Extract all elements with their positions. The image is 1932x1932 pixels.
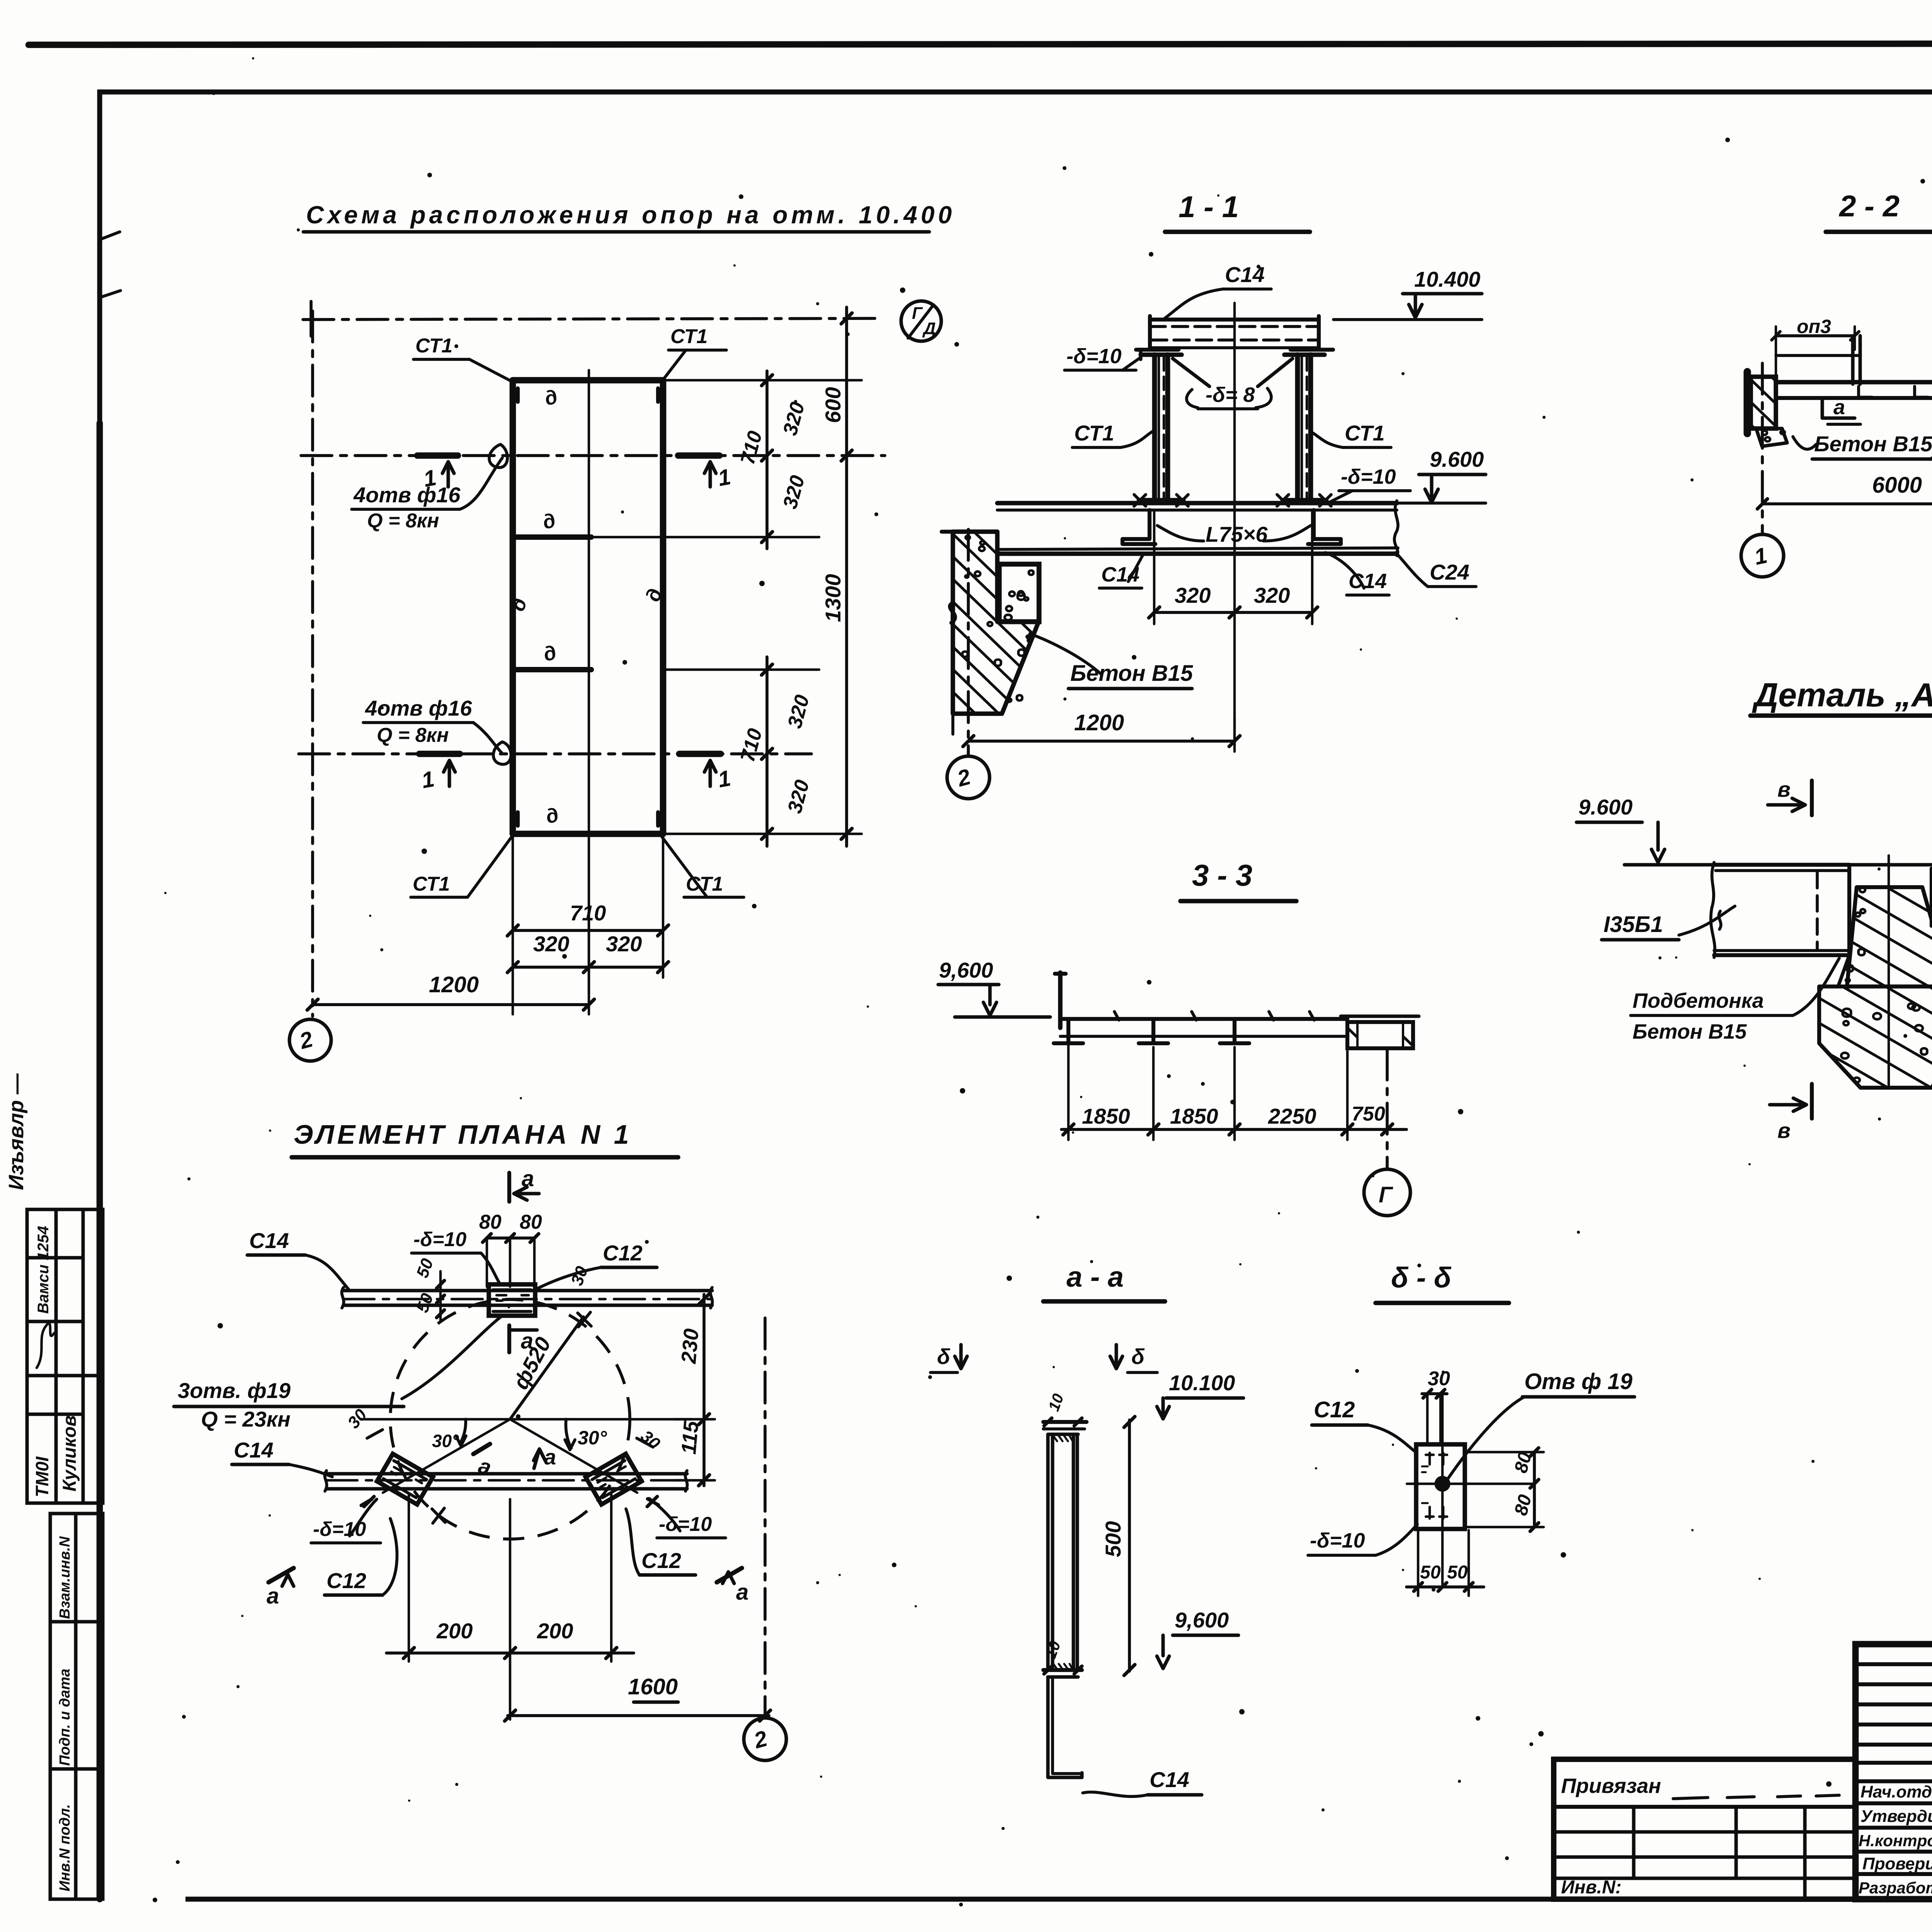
plan axis horizontal line G/D (top) xyxy=(303,318,881,320)
detail A pedestal speckles xyxy=(1841,1003,1932,1082)
element plan axis circle 2 xyxy=(744,1718,786,1760)
plan hole leader bottom xyxy=(473,723,502,753)
svg-text:δ: δ xyxy=(1131,1344,1145,1369)
svg-text:9.600: 9.600 xyxy=(1578,795,1633,819)
svg-text:а: а xyxy=(267,1583,279,1609)
section 2-2 axis circle 1 xyxy=(1741,534,1784,577)
section 3-3 axis dash line to circle G xyxy=(1386,1049,1389,1169)
svg-text:1600: 1600 xyxy=(628,1674,678,1699)
detail A floor level line xyxy=(1624,863,1932,867)
element plan lower beam xyxy=(327,1472,687,1476)
svg-text:-δ=10: -δ=10 xyxy=(659,1513,712,1536)
plan intermediate rib line 2 xyxy=(513,667,591,672)
svg-text:3 - 3: 3 - 3 xyxy=(1192,858,1252,892)
svg-text:50: 50 xyxy=(1447,1562,1468,1583)
svg-text:оп3: оп3 xyxy=(1797,316,1831,337)
svg-text:С14: С14 xyxy=(1150,1767,1189,1792)
svg-text:Проверил: Проверил xyxy=(1862,1854,1932,1873)
privyazan dashes in header xyxy=(1673,1795,1839,1799)
section a-a column C12 verticals xyxy=(1048,1434,1077,1670)
section b-b otv leader xyxy=(1447,1397,1524,1480)
element plan section mark a below plate xyxy=(507,1325,511,1352)
section 1-1 center vertical thin line xyxy=(1233,303,1236,745)
svg-text:ТМ0I: ТМ0I xyxy=(32,1456,52,1497)
title block top grid horizontal rows xyxy=(1855,1664,1932,1781)
section a-a column hatch small bottom xyxy=(1053,1664,1073,1669)
svg-text:80: 80 xyxy=(520,1211,542,1233)
plan right dim extension lines xyxy=(591,380,862,834)
section 2-2 section mark a xyxy=(1822,400,1855,418)
svg-text:1200: 1200 xyxy=(1074,710,1124,735)
detail A section mark v bottom xyxy=(1810,1084,1814,1119)
section 2-2 axis vertical 1 xyxy=(1761,363,1764,535)
sheet outer border top line xyxy=(29,43,1932,45)
section 1-1 concrete block Beton B15 xyxy=(999,564,1039,622)
svg-text:а: а xyxy=(544,1445,556,1469)
svg-text:-δ=10: -δ=10 xyxy=(1066,345,1122,368)
svg-text:Г: Г xyxy=(912,304,923,323)
plan axis vertical line (left, axis 2) xyxy=(311,311,314,1016)
section a-a mark b top right xyxy=(1110,1356,1122,1369)
section 3-3 dim extension lines xyxy=(1068,1043,1347,1140)
privyazan inner verticals xyxy=(1634,1807,1805,1899)
svg-text:СТ1: СТ1 xyxy=(1345,421,1385,445)
element plan bottom dim extensions xyxy=(409,1493,611,1719)
plan bottom dim extensions xyxy=(513,837,663,1014)
detail A right beam C24 xyxy=(1932,869,1932,926)
section 1-1 floor beam xyxy=(997,501,1397,505)
section b-b cross thin lines xyxy=(1407,1483,1534,1485)
element plan section mark a bottom-right xyxy=(717,1568,742,1582)
plan section mark 1 top-left xyxy=(417,452,458,459)
section 1-1 gusset diagonals xyxy=(1173,359,1209,386)
element plan dim 230 right xyxy=(702,1294,706,1486)
svg-text:а: а xyxy=(736,1580,748,1605)
section b-b channel marks inside plate xyxy=(1426,1453,1447,1464)
svg-text:Бетон В15: Бетон В15 xyxy=(1814,432,1932,456)
svg-text:320: 320 xyxy=(533,932,569,956)
svg-text:200: 200 xyxy=(537,1619,573,1643)
svg-text:СТ1: СТ1 xyxy=(413,873,450,895)
detail A right strip podbetonka speckled xyxy=(1923,887,1932,986)
detail A section mark v top xyxy=(1810,781,1814,815)
svg-text:Инв.N подл.: Инв.N подл. xyxy=(57,1804,73,1891)
plan plate corner marks xyxy=(518,388,658,826)
svg-text:30°: 30° xyxy=(578,1427,607,1449)
svg-text:Деталь „А”: Деталь „А” xyxy=(1752,677,1932,714)
element plan angle 30deg arcs xyxy=(460,1419,466,1444)
section 1-1 wall top edge mark xyxy=(942,530,957,534)
title block signature rows horizontals xyxy=(1855,1803,1932,1874)
svg-text:9.600: 9.600 xyxy=(1430,447,1484,471)
plan center thin vertical xyxy=(588,370,590,993)
section 3-3 channel piece right xyxy=(1347,1022,1413,1048)
svg-text:1850: 1850 xyxy=(1082,1104,1130,1128)
section 2-2 beam clip marks xyxy=(1859,386,1872,397)
section 3-3 beam top ticks xyxy=(1114,1012,1119,1020)
svg-text:10.400: 10.400 xyxy=(1414,267,1480,291)
element plan dashed circle f520 xyxy=(390,1299,630,1539)
section a-a bottom plate xyxy=(1043,1668,1082,1672)
section 3-3 left end post xyxy=(1058,973,1063,1028)
svg-text:320: 320 xyxy=(1175,583,1211,607)
svg-text:Разработал: Разработал xyxy=(1859,1879,1932,1897)
svg-text:4отв ф16: 4отв ф16 xyxy=(353,483,461,507)
svg-text:Н.контроль: Н.контроль xyxy=(1859,1832,1932,1850)
svg-text:1200: 1200 xyxy=(429,972,479,997)
detail A pedestal hatched xyxy=(1819,986,1932,1088)
svg-text:710: 710 xyxy=(570,901,606,925)
section 1-1 axis vertical dash line xyxy=(967,529,970,756)
svg-text:9,600: 9,600 xyxy=(939,958,993,982)
svg-text:6000: 6000 xyxy=(1872,473,1922,498)
svg-text:Привязан: Привязан xyxy=(1561,1774,1661,1798)
section 2-2 left concrete chunk xyxy=(1756,429,1787,446)
svg-text:750: 750 xyxy=(1352,1103,1385,1125)
svg-text:Q = 8кн: Q = 8кн xyxy=(367,510,439,532)
element plan 3otv leader xyxy=(402,1316,502,1399)
svg-text:80: 80 xyxy=(479,1211,502,1233)
section a-a beam top left stub xyxy=(1043,1422,1044,1429)
plan dim line 320-710-320 bottom group xyxy=(765,657,769,846)
plan support plate rectangle outline xyxy=(513,380,663,834)
svg-text:1850: 1850 xyxy=(1170,1104,1218,1128)
svg-text:30°: 30° xyxy=(432,1431,459,1451)
svg-text:δ - δ: δ - δ xyxy=(1391,1262,1452,1294)
section 1-1 angle connector left L75x6 xyxy=(1122,510,1155,544)
svg-text:600: 600 xyxy=(821,387,845,423)
detail A podbetonka left leader xyxy=(1764,958,1839,1015)
section 1-1 right column CT1 xyxy=(1295,355,1300,500)
left stamp signature squiggle xyxy=(37,1323,54,1368)
plan hole leader top xyxy=(460,458,502,509)
svg-text:Отв ф 19: Отв ф 19 xyxy=(1524,1369,1633,1394)
section a-a lower channel C14 xyxy=(1048,1677,1082,1777)
svg-text:200: 200 xyxy=(436,1619,473,1643)
svg-text:а: а xyxy=(1833,396,1845,419)
svg-text:Схема расположения опор на: Схема расположения опор на отм. 10.400 xyxy=(306,201,955,229)
element plan diagonal stub left xyxy=(383,1419,510,1493)
section 1-1 right column base plate xyxy=(1283,498,1326,503)
element plan top plate assembly xyxy=(489,1284,535,1316)
section 3-3 dim line xyxy=(1061,1128,1406,1131)
svg-text:Q = 8кн: Q = 8кн xyxy=(377,724,449,747)
svg-text:С12: С12 xyxy=(1314,1397,1355,1422)
svg-text:С14: С14 xyxy=(234,1438,274,1462)
section a-a top plate xyxy=(1046,1420,1082,1420)
svg-text:Вамси 1254: Вамси 1254 xyxy=(35,1226,52,1314)
left stamp block upper grid xyxy=(27,1209,103,1503)
svg-text:СТ1: СТ1 xyxy=(670,325,707,348)
svg-text:С24: С24 xyxy=(1430,560,1469,584)
svg-text:в: в xyxy=(1777,1118,1791,1143)
svg-text:3отв. ф19: 3отв. ф19 xyxy=(178,1378,291,1403)
section 1-1 left column CT1 xyxy=(1152,355,1157,500)
svg-text:І35Б1: І35Б1 xyxy=(1604,912,1663,937)
svg-text:2 - 2: 2 - 2 xyxy=(1838,189,1900,223)
left stamp block lower xyxy=(50,1514,103,1899)
section a-a column hatch small top xyxy=(1053,1436,1073,1441)
plan section mark 1 top-right xyxy=(678,452,719,459)
section 1-1 right column cap plate xyxy=(1284,352,1325,357)
plan axis circle 2 bottom-left xyxy=(289,1019,331,1061)
section a-a top beam lines xyxy=(1043,1420,1087,1424)
svg-text:320: 320 xyxy=(606,932,642,956)
element plan right axis dash line xyxy=(764,1318,767,1718)
svg-text:-δ= 8: -δ= 8 xyxy=(1206,383,1255,406)
svg-text:320: 320 xyxy=(1254,583,1290,607)
svg-text:Нач.отд.: Нач.отд. xyxy=(1861,1782,1932,1801)
svg-text:1300: 1300 xyxy=(821,574,845,622)
svg-text:а: а xyxy=(522,1166,534,1191)
plan dim line 600-1300 right xyxy=(845,307,848,846)
element plan section marks a on diagonals xyxy=(473,1444,490,1454)
element plan cross marks on circle xyxy=(578,1312,591,1327)
svg-text:δ: δ xyxy=(937,1344,951,1369)
element plan section mark a top xyxy=(507,1173,511,1202)
svg-text:500: 500 xyxy=(1101,1521,1125,1557)
svg-text:С14: С14 xyxy=(249,1228,289,1253)
svg-text:С12: С12 xyxy=(327,1568,366,1593)
corner ticks top-left frame xyxy=(100,232,121,298)
svg-text:Взам.инв.N: Взам.инв.N xyxy=(57,1536,73,1619)
element plan top beam xyxy=(344,1289,712,1293)
section 3-3 beam line xyxy=(1060,1017,1347,1021)
svg-text:Подп. и дата: Подп. и дата xyxy=(57,1668,73,1766)
element plan section mark a bottom-left xyxy=(269,1568,294,1582)
section 3-3 axis circle G xyxy=(1364,1169,1410,1216)
title block outer rectangle xyxy=(1855,1644,1932,1899)
svg-text:L75×6: L75×6 xyxy=(1206,522,1268,546)
element plan rotated plate left xyxy=(377,1454,433,1504)
svg-text:115: 115 xyxy=(677,1420,703,1455)
section 1-1 wall speckles xyxy=(962,536,1001,666)
svg-text:Подбетонка: Подбетонка xyxy=(1633,989,1764,1012)
svg-text:-δ=10: -δ=10 xyxy=(1341,465,1396,488)
privyazan table outline xyxy=(1554,1759,1855,1899)
svg-text:С12: С12 xyxy=(641,1548,681,1573)
svg-text:С12: С12 xyxy=(603,1241,643,1265)
element plan diagonal stub right xyxy=(510,1419,637,1493)
element plan rotated plate right xyxy=(586,1454,642,1504)
section 1-1 left column cap plate xyxy=(1141,352,1182,357)
plan dim line 320-710-320 top group xyxy=(765,371,769,549)
section 2-2 floor beam xyxy=(1776,380,1932,384)
svg-text:Q = 23кн: Q = 23кн xyxy=(201,1407,291,1431)
detail A center axis thin xyxy=(1888,855,1890,1088)
plan axis horizontal line 2 xyxy=(301,454,885,457)
section 2-2 left wall hatched xyxy=(1751,377,1776,429)
section 2-2 parapet lines xyxy=(1776,354,1859,357)
detail A left strip podbetonka speckled xyxy=(1832,865,1857,986)
plan axis horizontal line 3 (bottom) xyxy=(299,752,811,755)
svg-text:ЭЛЕМЕНТ ПЛАНА N 1: ЭЛЕМЕНТ ПЛАНА N 1 xyxy=(294,1119,632,1150)
section 1-1 angle connector right L75x6 xyxy=(1308,510,1341,544)
svg-text:9,600: 9,600 xyxy=(1175,1608,1229,1632)
axis circle G/D xyxy=(901,301,941,341)
section 1-1 axis circle 2 xyxy=(947,756,990,799)
svg-text:Д: Д xyxy=(922,319,936,338)
section 1-1 left column base plate xyxy=(1139,498,1183,503)
section b-b hole xyxy=(1436,1478,1449,1490)
section 1-1 top beam C14 at 10.400 xyxy=(1150,318,1319,321)
section 2-2 parapet upstand xyxy=(1851,336,1855,384)
section 1-1 top beam end flanges xyxy=(1136,348,1179,352)
plan section mark 1 bottom-right xyxy=(679,751,721,757)
svg-text:Инв.N:: Инв.N: xyxy=(1561,1877,1622,1898)
section 1-1 concrete block speckles xyxy=(1005,570,1034,620)
section 1-1 wall left edge break squiggle xyxy=(950,603,955,623)
svg-text:-δ=10: -δ=10 xyxy=(1310,1529,1365,1552)
svg-text:в: в xyxy=(1777,777,1791,801)
svg-text:Куликов: Куликов xyxy=(60,1415,80,1492)
section 1-1 weld x-marks at column bases xyxy=(1134,495,1146,506)
svg-text:Бетон В15: Бетон В15 xyxy=(1633,1020,1747,1043)
svg-text:СТ1: СТ1 xyxy=(1074,421,1114,445)
section a-a dim 500 xyxy=(1128,1420,1131,1671)
svg-text:а - а: а - а xyxy=(1066,1261,1124,1293)
detail A left beam web dashed xyxy=(1816,872,1819,949)
privyazan row line under header xyxy=(1554,1805,1855,1809)
section 1-1 wall bottom left tail xyxy=(951,714,954,734)
section b-b plate rect xyxy=(1416,1444,1465,1529)
section 3-3 beam I-posts xyxy=(1066,1019,1070,1043)
svg-text:-δ=10: -δ=10 xyxy=(413,1228,466,1251)
svg-text:Изъявлр —: Изъявлр — xyxy=(5,1073,28,1190)
svg-text:Г: Г xyxy=(1379,1182,1393,1207)
plan section mark 1 bottom-left xyxy=(419,751,460,757)
detail A concrete wedge hatched xyxy=(1847,887,1932,986)
element plan middle horizontal thin line xyxy=(361,1418,692,1420)
svg-text:10.100: 10.100 xyxy=(1169,1371,1235,1395)
element plan radius line xyxy=(510,1317,583,1419)
svg-text:Утвердил: Утвердил xyxy=(1861,1807,1932,1826)
svg-text:230: 230 xyxy=(677,1328,703,1365)
svg-text:СТ1: СТ1 xyxy=(415,335,452,357)
svg-text:1 - 1: 1 - 1 xyxy=(1179,190,1239,224)
privyazan inner rows xyxy=(1554,1832,1855,1878)
plan intermediate rib line 1 xyxy=(513,534,591,540)
svg-text:2250: 2250 xyxy=(1268,1104,1316,1128)
svg-text:50: 50 xyxy=(1420,1562,1441,1583)
detail A left beam I35B1 xyxy=(1714,865,1849,955)
section b-b dim 80 80 right xyxy=(1533,1452,1536,1527)
svg-text:30: 30 xyxy=(1428,1367,1450,1390)
